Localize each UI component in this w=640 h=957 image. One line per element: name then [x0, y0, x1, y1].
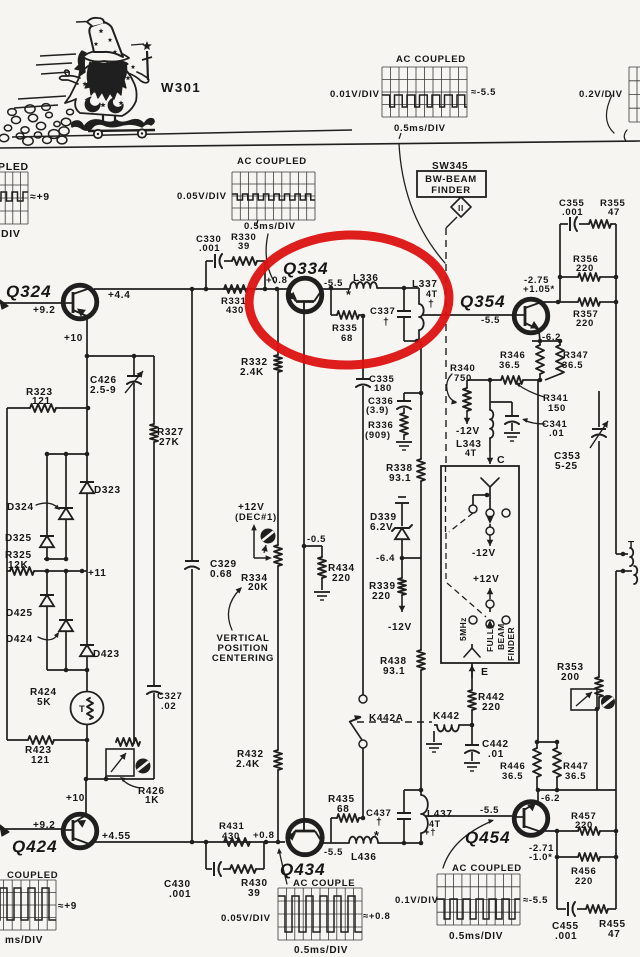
svg-text:+9.2: +9.2: [33, 820, 56, 831]
resistor R335: [337, 311, 359, 319]
svg-text:+10: +10: [66, 793, 85, 804]
label D323: [94, 485, 121, 496]
svg-text:36.5: 36.5: [499, 360, 520, 371]
label R346 36.5: [499, 350, 526, 371]
svg-text:W301: W301: [161, 80, 201, 95]
contact circle (right): [502, 509, 510, 517]
resistor R442: [468, 663, 476, 725]
label C430 .001: [164, 879, 191, 900]
wizard cartoon W301: [0, 18, 155, 145]
svg-text:+12V: +12V: [473, 574, 499, 585]
capacitor C336: [397, 401, 411, 413]
contact circle (mid-up): [486, 509, 494, 517]
leader to +0.8 node: [266, 234, 275, 283]
node (x265 on rail): [263, 287, 268, 292]
wire Q324 emitter bus: [86, 356, 88, 454]
svg-text:0.01V/DIV: 0.01V/DIV: [330, 89, 380, 100]
svg-text:2.4K: 2.4K: [240, 367, 264, 378]
label -0.5: [307, 534, 326, 545]
svg-text:+4.55: +4.55: [102, 831, 131, 842]
capacitor C437: [397, 790, 411, 843]
svg-text:AC COUPLED: AC COUPLED: [396, 54, 466, 65]
leader centering to R334: [228, 587, 242, 630]
pot box R353: [571, 689, 597, 710]
svg-text:FULL: FULL: [485, 629, 495, 652]
svg-text:AC COUPLED: AC COUPLED: [452, 863, 522, 874]
label D324: [7, 502, 60, 513]
label C353 5-25: [554, 451, 581, 472]
label L436: [351, 829, 380, 863]
relay contact C chevron: [481, 478, 499, 487]
svg-text:+9.2: +9.2: [33, 305, 56, 316]
capacitor C335: [356, 379, 370, 695]
label -12V (R339): [388, 622, 412, 633]
svg-text:†: †: [383, 316, 390, 328]
resistor R347: [545, 341, 564, 380]
node R456 left: [555, 855, 560, 860]
label +12V (DEC#1): [235, 502, 277, 523]
svg-text:L436: L436: [351, 852, 377, 863]
switch K442A: [349, 695, 367, 818]
resistor R340: [463, 380, 471, 424]
svg-text:PLED: PLED: [0, 161, 29, 173]
label +9.2 (Q324 base): [33, 305, 56, 316]
arrow to -12V: [487, 535, 494, 546]
label 0.5ms/DIV (upper-left): [244, 220, 296, 232]
label -5.5 (Q434): [324, 847, 343, 858]
capacitor C426 (variable): [125, 356, 143, 744]
label R442 220: [478, 692, 505, 713]
svg-text:*: *: [374, 829, 380, 843]
diode D324: [59, 454, 73, 559]
label R456 220: [571, 866, 597, 887]
label R331 430: [221, 296, 247, 316]
wire Q454 collector to -6.2 rail: [537, 790, 539, 801]
wire Q424 emitter rail: [94, 841, 285, 843]
wire Q424 collector bus: [84, 740, 154, 781]
svg-text:.001: .001: [169, 889, 191, 900]
svg-text:0.68: 0.68: [210, 569, 232, 580]
label C329 0.68: [210, 559, 237, 580]
label R426 1K: [120, 777, 165, 806]
label R325 12K: [5, 550, 32, 571]
svg-text:(DEC#1): (DEC#1): [235, 512, 277, 523]
node R356 right: [614, 275, 619, 280]
wire Q424 base from edge: [0, 825, 62, 836]
wire R335 branch: [331, 288, 363, 315]
wiper R334: [251, 524, 272, 561]
transformer stub lower: [616, 566, 637, 584]
label R424 5K: [30, 687, 57, 708]
label -12V (R340): [456, 426, 480, 437]
label PLED: [0, 161, 29, 173]
svg-text:.01: .01: [549, 428, 564, 439]
label +10 (Q324 emitter): [64, 333, 83, 344]
svg-text:68: 68: [341, 333, 353, 344]
wire Q334 collector rail: [320, 288, 350, 290]
svg-text:1K: 1K: [145, 795, 159, 806]
label -6.2 (Q354): [542, 332, 561, 343]
wire Q324 collector rail +4.4: [94, 288, 288, 290]
svg-text:121: 121: [32, 396, 51, 407]
wire R446/R447 top rail: [535, 740, 560, 745]
wire -6.4 to R338 bus: [402, 557, 421, 559]
node (x266 bottom rail): [264, 840, 269, 845]
ground (R336): [396, 442, 412, 450]
inductor L336: [350, 282, 377, 288]
label 0.2V/DIV: [579, 89, 623, 100]
label C336 (3.9): [366, 396, 394, 416]
label approx +9 (bottom-left): [58, 901, 77, 912]
svg-text:121: 121: [31, 755, 50, 766]
wire R423 rail: [7, 738, 89, 743]
svg-text:≈-5.5: ≈-5.5: [523, 895, 548, 906]
resistor R356: [578, 273, 600, 281]
node emitter rail tap: [85, 354, 90, 359]
label -5.5 (Q334 collector): [324, 278, 343, 289]
label R457 220: [571, 811, 597, 831]
label ms/DIV (bottom-left): [5, 935, 43, 946]
node Q354 collector: [556, 300, 561, 305]
node R442/C442: [470, 723, 475, 728]
wire Q454 base feed: [425, 815, 512, 817]
wire Q424 emitter up: [85, 779, 87, 814]
svg-text:(909): (909): [365, 430, 391, 441]
label L437 4T: [424, 809, 453, 838]
svg-text:D424: D424: [6, 634, 33, 645]
label C335 180: [369, 374, 395, 394]
node R446 bottom: [536, 788, 541, 793]
label D424: [6, 632, 59, 645]
node C426 top: [132, 354, 137, 359]
svg-text:E: E: [481, 666, 489, 678]
label W301: [161, 80, 201, 95]
wire Q324 base from page edge: [0, 300, 62, 309]
label 0.05V/DIV (bottom-middle): [221, 913, 271, 924]
svg-text:27K: 27K: [159, 437, 180, 448]
svg-text:.001: .001: [555, 931, 577, 942]
label FULL (vertical): [485, 629, 495, 652]
svg-text:220: 220: [576, 263, 594, 274]
contact circle (left): [469, 505, 477, 513]
svg-text:2.4K: 2.4K: [236, 759, 260, 770]
label C337: [370, 306, 396, 328]
svg-text:Q324: Q324: [6, 282, 52, 301]
label L337 4T: [412, 279, 438, 310]
svg-text:5-25: 5-25: [555, 461, 578, 472]
wire R341 rail: [467, 379, 540, 381]
arrow from +12V: [487, 588, 494, 599]
wire L336 to L337 top: [377, 287, 419, 289]
svg-text:T: T: [79, 704, 86, 715]
svg-text:D323: D323: [94, 485, 121, 496]
node -0.5: [302, 544, 307, 549]
svg-text:+0.8: +0.8: [253, 830, 275, 841]
node R356 left: [558, 275, 563, 280]
label R355 47: [600, 198, 626, 218]
label D339 6.2V: [370, 512, 397, 533]
transistor Q434: [287, 819, 323, 855]
resistor R423: [28, 736, 54, 744]
scope graticule 0.2V/DIV (right edge, cut): [629, 67, 640, 122]
label FINDER (vertical): [506, 627, 516, 661]
svg-text:ms/DIV: ms/DIV: [5, 935, 43, 946]
label VERTICAL POSITION CENTERING: [212, 633, 274, 664]
capacitor C455: [568, 902, 575, 916]
label 0.05V/DIV (upper): [177, 191, 227, 202]
transistor Q354: [514, 299, 548, 333]
resistor R325: [10, 567, 34, 575]
resistor R339: [398, 558, 406, 612]
wire C arrow into beam finder box: [487, 452, 494, 464]
resistor R331: [224, 285, 248, 293]
svg-text:220: 220: [482, 702, 501, 713]
label L336: [353, 273, 379, 284]
wire diode bottom rail: [47, 668, 89, 673]
svg-text:Q454: Q454: [465, 828, 511, 847]
thermistor R424: [71, 670, 104, 740]
svg-text:AC COUPLED: AC COUPLED: [237, 156, 307, 167]
wire R456 rail: [557, 856, 616, 858]
label C442 .01: [482, 739, 509, 760]
wire relay common: [473, 487, 490, 509]
svg-text:5MHz: 5MHz: [458, 617, 468, 641]
svg-text:.001: .001: [199, 243, 220, 254]
wire D325 column upper: [46, 454, 48, 535]
wire emitter sub-bus: [556, 831, 558, 909]
svg-text:93.1: 93.1: [389, 473, 411, 484]
svg-text:430: 430: [226, 305, 244, 316]
label -6.4: [376, 553, 395, 564]
diode D425: [40, 571, 54, 670]
wire Q334 emitter down: [303, 313, 305, 546]
label 0.5ms/DIV (bottom-middle): [294, 945, 348, 956]
transistor Q334: [288, 278, 322, 312]
svg-text:220: 220: [576, 318, 594, 329]
label +0.8 (Q334 base): [266, 275, 288, 286]
ground (C341): [504, 433, 520, 441]
ground (R434): [314, 592, 330, 600]
contact circle (mid-3): [486, 600, 494, 608]
label R431 430: [219, 821, 245, 842]
svg-text:0.05V/DIV: 0.05V/DIV: [221, 913, 271, 924]
wire L436 to L437: [378, 842, 421, 844]
zener diode D339: [392, 525, 412, 558]
svg-text:L336: L336: [353, 273, 379, 284]
label L343 4T: [456, 439, 482, 458]
leader to Q454 base: [443, 819, 494, 868]
wire Q434 emitter rail: [321, 842, 349, 844]
label Q354: [460, 292, 506, 311]
label 0.5ms/DIV (bottom-right): [449, 931, 503, 942]
svg-text:6.2V: 6.2V: [370, 522, 393, 533]
wire R356 rail: [560, 276, 616, 278]
leader (right grid): [606, 95, 627, 141]
svg-text:36.5: 36.5: [502, 771, 523, 782]
label E: [481, 666, 489, 678]
relay box (beam finder switch): [441, 466, 519, 663]
label R332 2.4K: [240, 357, 268, 378]
svg-text:COUPLED: COUPLED: [7, 870, 58, 881]
resistor R357: [578, 298, 600, 306]
svg-text:≈+9: ≈+9: [58, 901, 77, 912]
svg-text:39: 39: [238, 241, 250, 252]
wire Q354 emitter to -6.2: [532, 331, 560, 341]
dashed actuator line SW345: [446, 217, 457, 466]
svg-text:≈+9: ≈+9: [30, 191, 50, 203]
svg-text:(3.9): (3.9): [366, 405, 389, 416]
label -2.75 +1.05*: [523, 275, 555, 295]
label +9.2 (Q424): [33, 820, 56, 831]
label R338 93.1: [386, 463, 413, 484]
svg-text:68: 68: [337, 804, 350, 815]
relay arm arrow (lower): [486, 608, 493, 628]
screwdriver adjust (R426): [136, 759, 151, 774]
wire rail to C426/R327: [87, 355, 154, 357]
svg-text:≈-5.5: ≈-5.5: [471, 87, 496, 98]
wire Q354 collector to rail: [543, 301, 616, 303]
label R356 220: [573, 254, 599, 274]
label Q454: [465, 828, 511, 847]
label -6.2 (bottom): [541, 793, 560, 804]
label R347 36.5: [562, 350, 589, 371]
svg-text:-6.2: -6.2: [541, 793, 560, 804]
node C337 top: [402, 286, 407, 291]
ground (C442): [464, 763, 480, 771]
svg-text:D324: D324: [7, 502, 34, 513]
svg-text:II: II: [458, 203, 464, 213]
node Q334 collector: [329, 286, 334, 291]
label D423: [93, 649, 120, 660]
label +4.55: [102, 831, 131, 842]
inductor L437: [421, 790, 428, 843]
svg-text:36.5: 36.5: [565, 771, 586, 782]
svg-text:150: 150: [548, 403, 566, 414]
node R347 top: [558, 339, 563, 344]
label R432 2.4K: [236, 749, 264, 770]
svg-text:FINDER: FINDER: [431, 185, 471, 196]
svg-text:-12V: -12V: [456, 426, 480, 437]
label COUPLED (bottom-left): [7, 870, 58, 881]
label C341 .01: [522, 418, 568, 439]
label approx +0.8: [363, 911, 390, 922]
svg-text:DIV: DIV: [1, 228, 21, 240]
label C (relay contact): [497, 454, 505, 466]
label AC COUPLED (bottom-middle): [293, 878, 355, 889]
diode D323: [80, 454, 94, 571]
label R438 93.1: [380, 656, 407, 677]
svg-text:†: †: [428, 298, 435, 310]
svg-text:4T: 4T: [465, 448, 477, 458]
svg-text:.001: .001: [562, 207, 583, 218]
inductor L436: [349, 837, 378, 843]
resistor R446: [533, 742, 541, 790]
label T (transformer): [628, 540, 635, 551]
scope graticule 0.01V/DIV: [382, 67, 467, 117]
scope graticule (left edge, cut): [0, 172, 28, 224]
diamond node II: [451, 197, 471, 217]
wire R335 column down: [362, 316, 364, 378]
label C327 .02: [157, 691, 183, 712]
wire Q354 base feed: [423, 314, 512, 316]
svg-text:+11: +11: [88, 568, 107, 579]
svg-text:20K: 20K: [248, 582, 269, 593]
svg-text:0.2V/DIV: 0.2V/DIV: [579, 89, 623, 100]
label +12V (relay): [473, 574, 499, 585]
node (x192 on rail): [190, 287, 195, 292]
label AC COUPLED (bottom-right): [452, 863, 522, 874]
label +11: [88, 568, 107, 579]
leader from grid to Q354 area: [399, 144, 445, 263]
svg-text:0.05V/DIV: 0.05V/DIV: [177, 191, 227, 202]
svg-text:+10: +10: [64, 333, 83, 344]
resistor R432: [274, 750, 282, 770]
svg-text:Q424: Q424: [12, 837, 58, 856]
wire C430/R430 branch: [206, 842, 264, 869]
svg-text:-5.5: -5.5: [324, 847, 343, 858]
svg-text:≈+0.8: ≈+0.8: [363, 911, 390, 922]
label approx -5.5 (bottom-right): [523, 895, 548, 906]
svg-text:BW-BEAM: BW-BEAM: [425, 174, 477, 185]
diode D423: [80, 571, 94, 670]
node R353 bottom: [595, 707, 600, 712]
svg-text:2.5-9: 2.5-9: [90, 385, 116, 396]
label R353 200: [557, 662, 584, 683]
node R435 right: [361, 816, 366, 821]
ground (above D339): [395, 497, 409, 526]
resistor R323: [30, 404, 56, 412]
label -5.5 (Q454 base): [480, 805, 499, 816]
label 0.1V/DIV: [395, 895, 439, 906]
resistor R457: [578, 827, 600, 835]
wire C353 column: [598, 391, 600, 677]
label R339 220: [369, 581, 396, 602]
label R336 (909): [365, 420, 394, 441]
svg-text:D423: D423: [93, 649, 120, 660]
wire C437 top jog: [404, 788, 423, 793]
wire C455/R455 rail: [557, 908, 616, 910]
contact circle (mid-2): [486, 527, 494, 535]
node Q334 base: [275, 287, 280, 292]
wire R353 down: [596, 709, 598, 790]
resistor R455: [586, 905, 608, 913]
wire Q454 emitter rail: [545, 830, 616, 832]
svg-text:47: 47: [608, 207, 620, 218]
label Q334: [283, 259, 329, 278]
svg-text:FINDER: FINDER: [506, 627, 516, 661]
node (x206 bottom rail): [204, 840, 209, 845]
label SW345: [432, 161, 468, 172]
svg-text:93.1: 93.1: [383, 666, 405, 677]
svg-text:220: 220: [575, 876, 593, 887]
label R340 750: [447, 363, 476, 405]
resistor R336: [400, 413, 408, 440]
node (x206 on rail): [204, 287, 209, 292]
label R455 47: [599, 919, 626, 940]
label Q424: [12, 837, 58, 856]
svg-text:0.5ms/DIV: 0.5ms/DIV: [449, 931, 503, 942]
svg-text:-0.5: -0.5: [307, 534, 326, 545]
svg-text:.02: .02: [161, 701, 176, 712]
wire diode top rail: [45, 452, 87, 457]
svg-text:C: C: [497, 454, 505, 466]
capacitor C327: [147, 686, 161, 779]
wire -6.2 bus down: [537, 380, 539, 742]
svg-text:BEAM: BEAM: [496, 623, 506, 650]
wire C336 jog: [404, 393, 421, 400]
dashed linkage K442A-K442: [357, 721, 432, 723]
screwdriver adjust (R334): [261, 529, 276, 554]
